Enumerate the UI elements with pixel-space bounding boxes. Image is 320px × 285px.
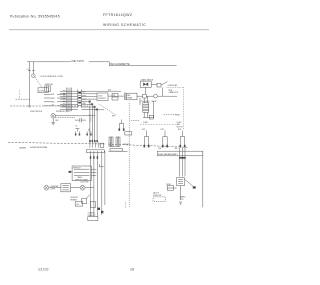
small box lower left: [75, 202, 83, 207]
connector strip P1: [66, 88, 68, 112]
strain relief block: [45, 86, 51, 91]
svg-text:LIGHT: LIGHT: [51, 189, 56, 191]
svg-text:FFTR1814QW2: FFTR1814QW2: [103, 13, 132, 17]
wire harness run 3: [44, 101, 66, 103]
aux switch stack: [112, 94, 118, 97]
bus tick blobs: [90, 156, 91, 159]
service cord plug prong 2: [32, 62, 35, 71]
terminal box under switches: [110, 149, 123, 152]
svg-text:HTR: HTR: [142, 129, 146, 131]
wire: [162, 88, 164, 97]
svg-text:CABINET: CABINET: [19, 146, 26, 149]
wire stubs below blobs: [90, 142, 99, 147]
node ground mark: [28, 106, 31, 107]
door switch forks: [76, 129, 80, 135]
svg-text:Publication No. 5995545045: Publication No. 5995545045: [10, 15, 60, 19]
wire chain left drop: [139, 98, 141, 105]
PTC start relay box: [140, 81, 151, 87]
wire branch curved: [185, 179, 194, 187]
svg-text:DEFROST: DEFROST: [73, 168, 81, 170]
heater plug fork C: [180, 131, 184, 147]
svg-text:INTERIOR LIGHT: INTERIOR LIGHT: [56, 111, 70, 113]
wire: [95, 109, 104, 111]
freezer light bulb: [44, 185, 49, 190]
svg-text:CONTROL: CONTROL: [98, 98, 106, 100]
svg-text:HTR: HTR: [178, 129, 182, 131]
small junction box: [100, 143, 104, 147]
node label LINE THERMOSTAT: [70, 59, 89, 63]
svg-text:RED: RED: [82, 103, 86, 105]
door switch forks 2: [87, 129, 91, 135]
mullion heater fork: [119, 120, 123, 130]
harness rung 2: [60, 93, 78, 95]
svg-text:LINE T-STAT: LINE T-STAT: [71, 60, 85, 63]
wire: [143, 117, 154, 119]
second light line dashed: [55, 117, 75, 119]
evap label box: [157, 151, 203, 156]
lead hatch ticks: [179, 157, 186, 159]
svg-text:20: 20: [75, 126, 77, 128]
wire dotted stub: [19, 90, 21, 99]
svg-text:4A 125V: 4A 125V: [153, 192, 160, 195]
wire compressor legs: [144, 112, 147, 117]
svg-text:BLK: BLK: [82, 91, 86, 93]
wire harness run 4: [44, 104, 66, 106]
condenser fan dotted feed: [167, 86, 184, 88]
wire to bus 4: [81, 109, 97, 111]
bottom junction blob 2: [101, 211, 103, 213]
header rule: [9, 29, 209, 31]
heater plug fork B: [163, 131, 167, 147]
lamp 2: [80, 185, 85, 190]
svg-text:DEF: DEF: [175, 148, 178, 150]
wire comp link dashed: [131, 120, 140, 122]
wire to cold control: [81, 90, 121, 92]
wire L branch lower: [99, 164, 103, 167]
evap fan motor body: [177, 178, 185, 186]
bottom terminal box: [88, 217, 98, 221]
harness rung 4: [60, 98, 78, 100]
vertical pair lower right: [102, 151, 105, 215]
wire branch: [108, 150, 127, 152]
evap fan leads: [180, 148, 185, 177]
svg-text:WIRING SCHEMATIC: WIRING SCHEMATIC: [103, 23, 146, 27]
svg-text:ORG: ORG: [82, 99, 87, 101]
connector strip J1: [78, 89, 82, 107]
conn block: [38, 88, 48, 93]
wire: [81, 93, 97, 95]
terminal strip box: [86, 150, 104, 153]
wire: [151, 83, 157, 85]
wire L branch: [111, 143, 116, 146]
compressor motor: [143, 103, 149, 113]
wire dashed ground diagonal: [35, 77, 43, 88]
wire: [81, 98, 97, 100]
ground symbol: [51, 122, 55, 124]
overload OL1: [157, 83, 161, 87]
dashed vertical divider: [128, 103, 130, 207]
wire: [91, 169, 96, 175]
svg-text:DEF: DEF: [159, 148, 162, 150]
junction blob 1: [89, 101, 91, 103]
svg-text:COND: COND: [177, 122, 183, 124]
harness rung 1: [60, 90, 78, 92]
timer connector blob: [69, 171, 72, 173]
wire relay drop: [145, 87, 147, 94]
start relay pilot: [154, 94, 158, 98]
wire: [180, 186, 182, 200]
defrost timer box: [72, 166, 91, 181]
wire: [49, 187, 94, 189]
wire chain drop: [153, 101, 155, 118]
wire dashed stub: [16, 98, 31, 100]
run capacitor plates: [124, 93, 126, 101]
wire: [55, 115, 95, 117]
svg-text:OVERLOAD: OVERLOAD: [141, 100, 151, 103]
junction blob 4: [96, 109, 98, 111]
wire: [144, 96, 147, 103]
defrost timer box T1: [127, 93, 137, 100]
svg-text:MOTOR: MOTOR: [177, 126, 184, 128]
ground arrow bottom: [179, 202, 182, 204]
svg-text:BLK GUARDETTE: BLK GUARDETTE: [110, 63, 130, 66]
svg-text:CAPACITOR: CAPACITOR: [169, 91, 179, 94]
heater plug fork A: [144, 131, 148, 147]
connector strip P2: [70, 88, 72, 112]
harness rung 8: [60, 109, 78, 111]
wire diagonal: [161, 82, 167, 86]
compressor aux box: [149, 115, 153, 119]
cold control box: [97, 93, 108, 101]
wire: [108, 95, 124, 97]
defrost limit component: [82, 198, 87, 204]
wire: [167, 187, 176, 189]
svg-text:EVAP FAN ASSEMBLY: EVAP FAN ASSEMBLY: [158, 153, 178, 156]
vertical bus upper: [90, 102, 97, 140]
wire dashed divider upper: [10, 105, 88, 107]
harness rung 3: [60, 95, 78, 97]
svg-text:LIGHT SWITCH: LIGHT SWITCH: [30, 111, 43, 113]
svg-text:T-ST: T-ST: [76, 204, 79, 206]
wire to bus 1: [81, 101, 90, 103]
svg-text:CONN: CONN: [39, 90, 45, 92]
svg-text:13W: 13W: [55, 120, 59, 122]
harness rung 5: [60, 101, 78, 103]
svg-text:COMP: COMP: [143, 122, 148, 124]
wire: [81, 95, 97, 97]
svg-text:HTR: HTR: [161, 129, 165, 131]
wire: [52, 118, 54, 122]
tall right line: [202, 151, 204, 207]
wire: [137, 95, 177, 97]
junction blob 3: [93, 106, 95, 108]
vertical bus lower: [91, 151, 98, 217]
svg-text:L1 BLK SERVICE CORD: L1 BLK SERVICE CORD: [40, 76, 64, 78]
condenser fan dotted drop: [183, 87, 185, 130]
heater blobs: [89, 140, 91, 142]
harness rung 6: [60, 103, 78, 105]
harness rung 7: [60, 106, 78, 108]
svg-text:START DEVICE: START DEVICE: [141, 78, 154, 81]
svg-text:TIMER: TIMER: [77, 177, 83, 179]
svg-text:COND: COND: [175, 114, 181, 116]
svg-text:DEFROST: DEFROST: [71, 197, 79, 199]
dashed little box: [153, 197, 166, 201]
svg-text:120V 60HZ: 120V 60HZ: [80, 182, 88, 184]
thermostat small box: [167, 186, 173, 191]
interior light bulb: [51, 114, 55, 118]
component lower mid: [90, 202, 95, 208]
svg-text:HTR: HTR: [112, 116, 116, 118]
wire L1 top run: [27, 62, 177, 66]
svg-text:TIMER: TIMER: [127, 98, 133, 100]
junction blob 2: [91, 103, 93, 105]
svg-text:125V: 125V: [180, 199, 185, 201]
wire harness run 1: [44, 93, 66, 95]
svg-text:19: 19: [130, 268, 134, 272]
switch component row: [109, 137, 113, 146]
svg-text:RELAY: RELAY: [152, 100, 158, 103]
svg-text:OVERLOAD: OVERLOAD: [168, 84, 178, 87]
wire to grommet: [32, 70, 34, 73]
service cord grommet: [32, 74, 36, 78]
dashed stub bottom: [125, 202, 127, 208]
wire to bus 3: [81, 106, 94, 108]
capacitor C1 plates: [80, 118, 82, 123]
wire dotted: [140, 124, 176, 126]
dashed segment mid right: [164, 114, 177, 116]
switch contacts small: [90, 117, 92, 122]
overload protector: [143, 94, 147, 98]
wire: [75, 119, 86, 121]
wire diagonal dashed: [100, 105, 116, 115]
wire diagonal: [87, 195, 90, 199]
wire neutral drop: [29, 70, 31, 105]
svg-text:DIVIDER: DIVIDER: [123, 144, 130, 146]
bottom junction blob 1: [98, 208, 100, 210]
svg-text:SHOWN FROM REAR: SHOWN FROM REAR: [30, 146, 48, 149]
wire to bus 2: [81, 103, 92, 105]
svg-text:12/10: 12/10: [38, 268, 49, 272]
fork foot box: [125, 132, 132, 135]
wire harness run 2: [44, 97, 66, 99]
svg-text:DEF: DEF: [127, 95, 130, 97]
service cord plug prong 1: [28, 62, 31, 71]
wire dashed cabinet divider: [8, 142, 188, 147]
svg-text:T-STAT: T-STAT: [166, 183, 171, 186]
defrost thermostat box: [61, 184, 71, 192]
